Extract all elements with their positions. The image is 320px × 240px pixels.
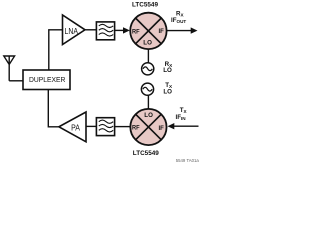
svg-text:IFIN: IFIN (176, 114, 187, 121)
mixer U1 LTC5549 (RX) (130, 13, 166, 49)
wire duplexer top to LNA input (49, 30, 63, 70)
svg-text:DUPLEXER: DUPLEXER (29, 77, 65, 84)
svg-text:IF: IF (159, 28, 164, 35)
duplexer box (23, 70, 70, 90)
svg-text:TX: TX (180, 107, 188, 114)
wire TX IF input arrow (173, 125, 199, 127)
oscillator RX LO (142, 63, 154, 75)
svg-text:RF: RF (132, 28, 140, 35)
svg-text:LO: LO (144, 112, 153, 119)
amplifier PA (59, 112, 86, 142)
svg-text:IF: IF (159, 125, 164, 132)
label RX LO (163, 61, 173, 74)
svg-text:LNA: LNA (65, 27, 79, 36)
wire filter to PA (86, 125, 96, 127)
label TX IFIN (176, 107, 188, 121)
svg-text:5549 TA01a: 5549 TA01a (176, 158, 200, 163)
wire PA to duplexer bottom (48, 90, 59, 127)
svg-text:IFOUT: IFOUT (171, 17, 186, 24)
antenna ANT (4, 56, 15, 81)
mixer U2 LTC5549 (TX) (130, 109, 166, 145)
svg-text:LTC5549: LTC5549 (132, 2, 158, 9)
wire TX LO oscillator to TX mixer (147, 95, 149, 109)
svg-text:LO: LO (143, 40, 152, 47)
wire filter to RX mixer with arrow (115, 29, 125, 31)
svg-text:LO: LO (163, 67, 172, 74)
svg-text:RF: RF (132, 125, 140, 132)
oscillator TX LO (141, 83, 153, 95)
wire antenna to duplexer (9, 80, 23, 82)
wire TX mixer RF to filter (115, 126, 130, 128)
wire LNA to RX filter (85, 29, 96, 31)
label RX IFOUT (171, 10, 186, 23)
filter FL2 (TX bandpass) (96, 118, 114, 136)
svg-text:LO: LO (163, 88, 172, 95)
svg-text:RX: RX (176, 10, 184, 17)
label TX LO (163, 82, 173, 96)
filter FL1 (RX bandpass) (96, 22, 114, 40)
svg-text:LTC5549: LTC5549 (133, 150, 159, 157)
wire RX IF output arrow (167, 30, 193, 32)
amplifier LNA (63, 15, 86, 45)
wire RX mixer LO to oscillator (147, 49, 149, 63)
svg-text:PA: PA (71, 124, 81, 133)
